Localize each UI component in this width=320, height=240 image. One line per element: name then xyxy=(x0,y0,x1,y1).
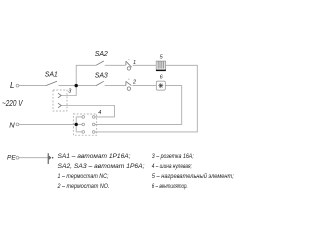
svg-text:4: 4 xyxy=(98,110,101,116)
svg-text:6: 6 xyxy=(160,74,164,80)
svg-text:3 – розетка 16А;: 3 – розетка 16А; xyxy=(152,153,194,160)
svg-text:2 – термостат NO.: 2 – термостат NO. xyxy=(57,183,110,190)
svg-text:SA3: SA3 xyxy=(95,73,108,80)
svg-text:PE: PE xyxy=(7,155,16,162)
svg-text:~220 V: ~220 V xyxy=(2,98,23,108)
svg-text:2: 2 xyxy=(132,79,136,85)
svg-text:SA2: SA2 xyxy=(95,51,108,58)
svg-text:L: L xyxy=(10,81,14,90)
svg-text:N: N xyxy=(9,120,15,129)
svg-text:5 – нагревательный элемент;: 5 – нагревательный элемент; xyxy=(152,172,234,180)
svg-text:1: 1 xyxy=(133,60,136,66)
svg-text:SA2, SA3 – автомат 1Р6А;: SA2, SA3 – автомат 1Р6А; xyxy=(58,163,145,170)
svg-text:6 – вентилятор.: 6 – вентилятор. xyxy=(152,183,188,190)
svg-text:SA1: SA1 xyxy=(45,72,58,79)
svg-text:4 – шина нулевая;: 4 – шина нулевая; xyxy=(152,163,192,170)
svg-text:1 – термостат NC;: 1 – термостат NC; xyxy=(58,173,109,180)
svg-text:3: 3 xyxy=(68,89,72,95)
svg-text:SA1 – автомат 1Р16А;: SA1 – автомат 1Р16А; xyxy=(58,153,131,160)
svg-text:5: 5 xyxy=(160,55,164,61)
